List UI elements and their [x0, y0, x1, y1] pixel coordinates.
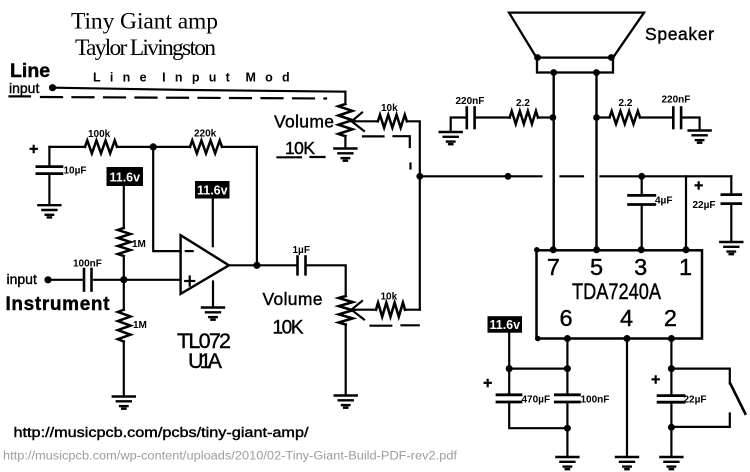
- wire 1uF to pot V2: [307, 265, 346, 296]
- svg-text:1M: 1M: [132, 239, 146, 250]
- wire top rail to 100k: [49, 146, 85, 148]
- svg-text:6: 6: [559, 305, 572, 331]
- svg-text:2.2: 2.2: [619, 98, 633, 109]
- dashed mod line top: [41, 97, 326, 99]
- resistor R-100k: [85, 140, 117, 153]
- IC U2 TDA7240A box: [537, 250, 703, 338]
- node pin2 bottom: [668, 424, 675, 431]
- wire speaker left to pin 7: [553, 73, 555, 250]
- title text: [71, 9, 218, 62]
- wire 2.2 to 220nF right: [640, 116, 672, 118]
- svg-text:22µF: 22µF: [684, 395, 707, 406]
- node 470uF top: [506, 365, 513, 372]
- wire box3 node to pin6: [509, 368, 567, 370]
- node instrument junction: [120, 276, 127, 283]
- svg-text:11.6v: 11.6v: [490, 318, 521, 332]
- wire line input to volume pot: [54, 88, 345, 92]
- pin number labels: [547, 254, 692, 331]
- wire op-amp output: [229, 264, 296, 266]
- main power cap wire vertical bus: [419, 176, 421, 309]
- svg-text:100k: 100k: [88, 129, 111, 140]
- label TL072 U1A: [177, 329, 231, 373]
- node pin2 top: [668, 365, 675, 372]
- node pin 3: [638, 246, 645, 253]
- wire 220nF to 2.2 left: [476, 116, 510, 118]
- wire box3 down: [508, 333, 510, 369]
- svg-text:input: input: [9, 80, 39, 96]
- svg-text:11.6v: 11.6v: [197, 184, 228, 198]
- capacitor C-4uF: [638, 173, 645, 180]
- wire 22uF to ground: [670, 403, 672, 456]
- capacitor C-100nF bottom: [555, 393, 579, 396]
- wire 220k down to op-amp output: [222, 147, 257, 265]
- wire pin 6: [566, 339, 568, 394]
- wire 10k-2 to bus: [405, 309, 420, 311]
- ground right snubber: [689, 131, 711, 143]
- wire feedback vertical: [153, 147, 180, 251]
- node 2.2 right junction: [593, 114, 600, 121]
- ground under pot V2: [335, 396, 357, 408]
- node box corner dots: [534, 247, 540, 253]
- ground under pot V1: [334, 149, 356, 161]
- svg-text:Tiny Giant amp: Tiny Giant amp: [71, 9, 218, 35]
- svg-text:+: +: [694, 178, 703, 195]
- node pin 5: [593, 246, 600, 253]
- wire ground to 220nF left: [451, 118, 466, 132]
- svg-text:220nF: 220nF: [662, 95, 691, 106]
- wire pin 2: [670, 339, 672, 395]
- node rail dot: [505, 173, 512, 180]
- svg-text:10K: 10K: [285, 138, 315, 158]
- capacitor C-470uF: [483, 375, 492, 392]
- capacitor C-22uF top right: [694, 178, 703, 195]
- ground under 1M-2: [113, 397, 135, 409]
- svg-text:1M: 1M: [133, 320, 147, 331]
- svg-text:2.2: 2.2: [516, 98, 530, 109]
- capacitor C-1uF: [296, 257, 299, 275]
- svg-text:10K: 10K: [273, 318, 304, 339]
- svg-text:5: 5: [590, 254, 603, 280]
- svg-text:+: +: [483, 375, 492, 392]
- resistor R-1M-2: [123, 280, 125, 310]
- ground under 10uF: [38, 205, 60, 217]
- svg-text:Volume: Volume: [274, 112, 334, 132]
- wire op-amp to ground: [212, 282, 214, 307]
- node 2.2 left junction: [550, 114, 557, 121]
- resistor R-2.2 left: [510, 111, 538, 124]
- svg-text:4µF: 4µF: [655, 196, 672, 207]
- resistor R-1M-1: [118, 228, 131, 256]
- wire pin 4 to ground: [626, 339, 628, 457]
- svg-text:100nF: 100nF: [73, 259, 102, 270]
- svg-text:3: 3: [634, 254, 647, 280]
- wire 220nF right to ground: [682, 118, 699, 131]
- wire junction to 220k: [153, 146, 190, 148]
- svg-text:10k: 10k: [381, 292, 398, 303]
- node speaker corner dots: [534, 54, 541, 61]
- underline dashes under 10K: [278, 156, 302, 158]
- ground under op-amp: [202, 308, 224, 320]
- wiper arrow pot V2: [351, 301, 364, 320]
- underline under input: [10, 95, 31, 97]
- svg-text:+: +: [29, 141, 38, 158]
- node pin6 top: [564, 365, 571, 372]
- node pin 6: [564, 335, 571, 342]
- node instrument input dot: [44, 276, 51, 283]
- op-amp plus sign: [185, 280, 194, 282]
- wire supply to op-amp: [212, 199, 214, 247]
- svg-text:TDA7240A: TDA7240A: [572, 279, 661, 304]
- capacitor C-220nF left: [465, 108, 468, 129]
- volume pot R-V2 10K: [339, 296, 353, 325]
- label Volume (pot V2): [263, 289, 323, 339]
- resistor R-10k-1: [378, 115, 407, 128]
- capacitor C-100nF input: [83, 269, 86, 291]
- wire 100nF to junction: [94, 279, 124, 281]
- wiper arrow pot V1: [352, 113, 364, 132]
- svg-text:Line: Line: [10, 60, 50, 82]
- resistor R-220k: [190, 140, 222, 153]
- svg-text:+: +: [651, 372, 660, 389]
- node line input dot: [49, 84, 56, 91]
- wire 100k to junction: [117, 146, 153, 148]
- svg-text:1: 1: [679, 254, 692, 280]
- svg-text:4: 4: [620, 305, 633, 331]
- switch jumper right of 22uF: [671, 369, 729, 384]
- supply label 11.6v box1: [107, 167, 144, 186]
- wire pin1 riser: [685, 176, 687, 249]
- svg-text:Speaker: Speaker: [645, 24, 714, 44]
- wire 1M-2 to ground: [123, 342, 125, 396]
- svg-text:http://musicpcb.com/pcbs/tiny-: http://musicpcb.com/pcbs/tiny-giant-amp/: [14, 425, 309, 440]
- svg-text:Instrument: Instrument: [6, 294, 111, 315]
- node pin 4: [624, 335, 631, 342]
- resistor R-2.2 right: [610, 111, 641, 124]
- wire 2.2 to speaker wire: [538, 116, 554, 118]
- svg-text:22µF: 22µF: [693, 200, 716, 211]
- node pin6 bottom: [564, 425, 571, 432]
- label instrument input: [6, 271, 111, 315]
- volume pot R-V1 10K: [344, 92, 346, 104]
- svg-text:U1A: U1A: [188, 349, 223, 373]
- svg-text:Volume: Volume: [263, 289, 323, 309]
- node feedback junction: [150, 143, 157, 150]
- dashes near pot V2: [371, 325, 392, 327]
- ground pin6: [556, 457, 578, 469]
- ground 22uF top right: [720, 242, 742, 254]
- svg-text:100nF: 100nF: [581, 395, 610, 406]
- svg-text:470µF: 470µF: [522, 395, 551, 406]
- dashes under 10k resistor: [363, 135, 384, 137]
- wire 100nF to ground: [566, 403, 568, 456]
- svg-text:7: 7: [547, 254, 560, 280]
- supply label 11.6v box3: [488, 316, 523, 333]
- wire 470uF bottom: [509, 403, 567, 428]
- svg-text:220k: 220k: [194, 129, 217, 140]
- op-amp minus sign: [186, 250, 193, 252]
- ground pin2: [660, 457, 682, 469]
- svg-text:11.6v: 11.6v: [110, 171, 141, 185]
- svg-text:1µF: 1µF: [293, 245, 310, 256]
- resistor R-10k-2: [376, 303, 405, 317]
- capacitor C-22uF bottom: [651, 372, 660, 389]
- capacitor C-10uF: [29, 141, 38, 158]
- svg-text:input: input: [7, 271, 37, 287]
- svg-text:10k: 10k: [381, 103, 398, 114]
- wire horizontal supply rail: [420, 175, 542, 177]
- svg-text:L i n e I n p u t M o d: L i n e I n p u t M o d: [93, 71, 293, 85]
- svg-text:10µF: 10µF: [64, 166, 87, 177]
- node pin 1: [683, 246, 690, 253]
- capacitor C-220nF right: [672, 108, 675, 129]
- node pin 7: [550, 246, 557, 253]
- node pin 2: [668, 335, 675, 342]
- wire speaker wire to 2.2 right: [597, 116, 610, 118]
- node op-amp output junction: [253, 262, 260, 269]
- svg-text:Taylor Livingston: Taylor Livingston: [75, 35, 216, 61]
- svg-text:http://musicpcb.com/wp-content: http://musicpcb.com/wp-content/uploads/2…: [3, 451, 458, 463]
- wire 10k to vertical bus: [407, 121, 420, 176]
- wire box1 to 1M: [123, 186, 125, 228]
- svg-text:220nF: 220nF: [456, 96, 485, 107]
- supply label 11.6v box2: [195, 181, 230, 199]
- svg-text:2: 2: [664, 305, 677, 331]
- op-amp U1A triangle: [181, 235, 229, 294]
- wire junction to op-amp plus: [124, 279, 181, 281]
- wire 1M to input node: [123, 256, 125, 280]
- speaker symbol: [509, 13, 644, 58]
- ground pin4: [616, 457, 638, 469]
- ground left snubber: [440, 132, 462, 144]
- label Line input: [9, 60, 50, 96]
- node junction bus/horizontal: [416, 173, 423, 180]
- wire speaker right to pin 5: [595, 73, 597, 250]
- wire input to 100nF: [48, 279, 83, 281]
